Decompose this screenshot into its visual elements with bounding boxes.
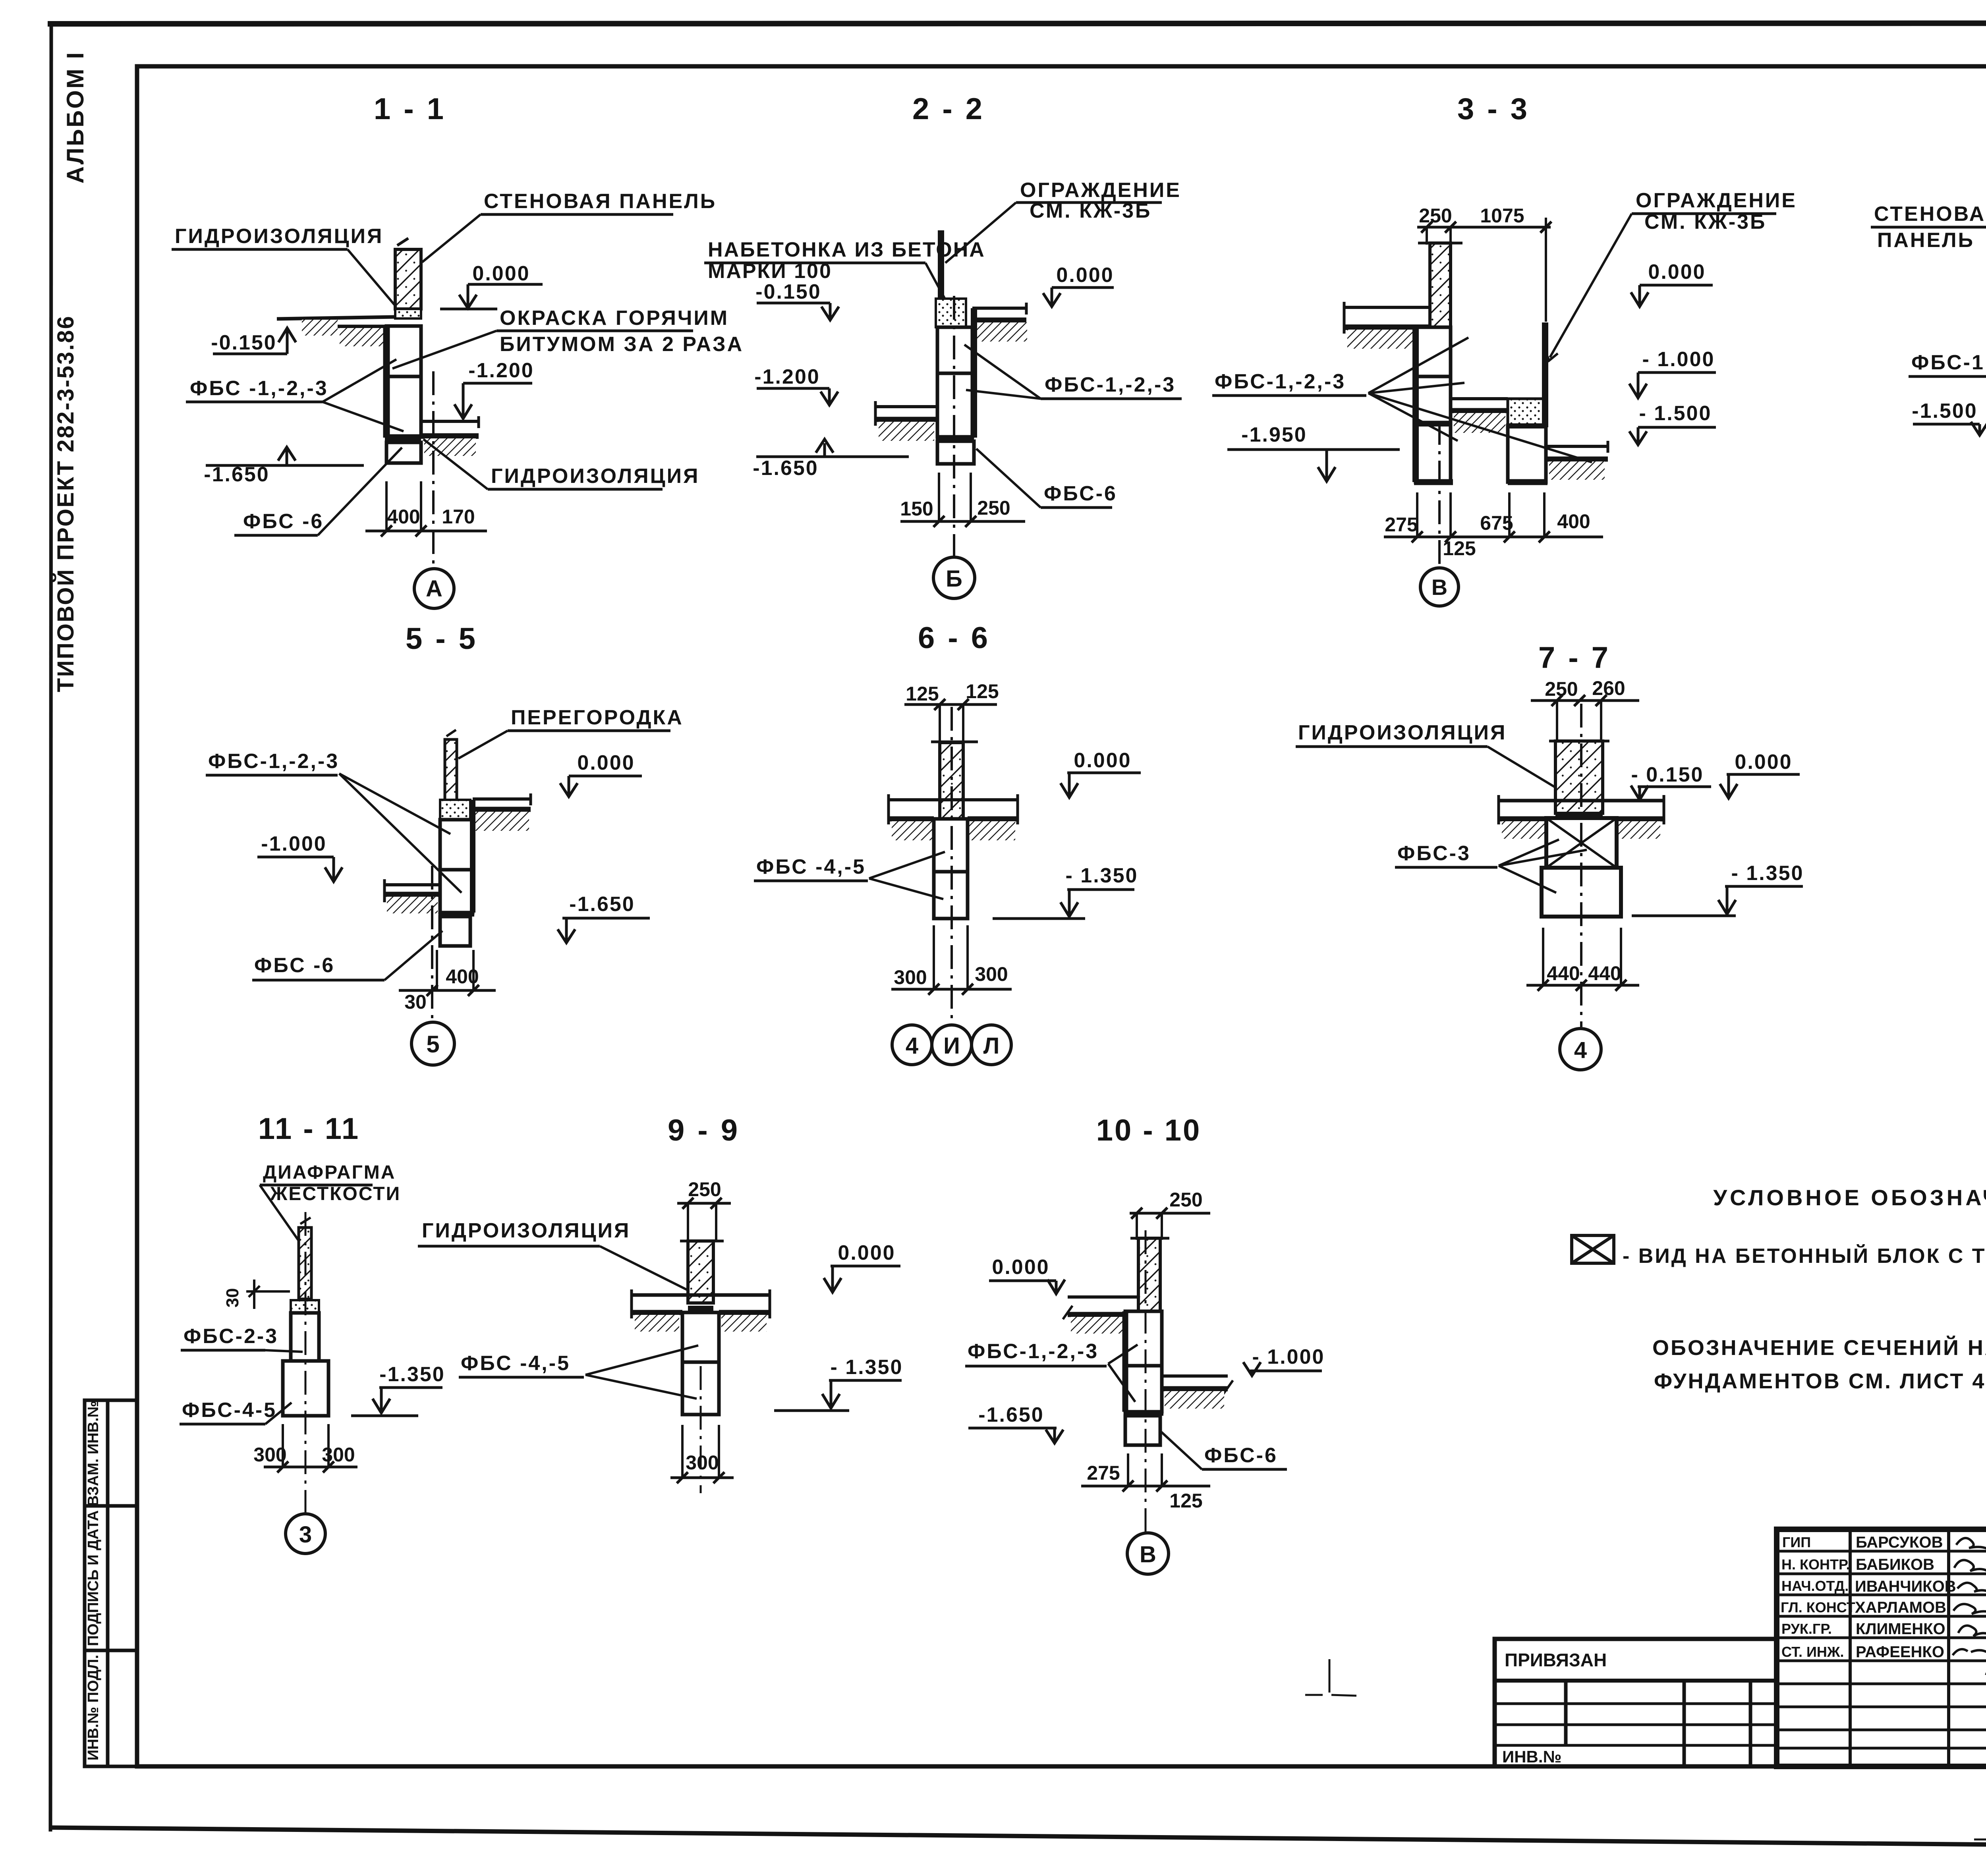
wall panel (hatched)	[1430, 243, 1451, 327]
top dimension 250	[677, 1202, 731, 1205]
floor slab left	[1068, 1295, 1138, 1299]
svg-text:400: 400	[1557, 510, 1590, 533]
axis line 3	[305, 1212, 307, 1512]
waterproofing layer under wall	[395, 309, 421, 318]
svg-text:В: В	[1140, 1542, 1156, 1567]
svg-text:150: 150	[900, 498, 933, 520]
foundation blocks	[1125, 1311, 1162, 1366]
svg-text:ФБС-1,-2,-3: ФБС-1,-2,-3	[968, 1340, 1099, 1363]
bottom dimension 275/125	[1081, 1485, 1210, 1488]
title block frame	[1777, 1529, 1986, 1766]
soil hatch right	[1165, 1391, 1224, 1409]
svg-text:ГИДРОИЗОЛЯЦИЯ: ГИДРОИЗОЛЯЦИЯ	[175, 225, 383, 248]
svg-text:В: В	[1432, 575, 1447, 600]
svg-text:5 - 5: 5 - 5	[406, 622, 478, 656]
bottom dimension 300/300	[264, 1466, 357, 1469]
svg-text:БИТУМОМ ЗА 2 РАЗА: БИТУМОМ ЗА 2 РАЗА	[500, 333, 744, 356]
svg-text:300: 300	[253, 1444, 286, 1466]
svg-text:-1.950: -1.950	[1241, 423, 1307, 446]
bitumen left edge	[1122, 1311, 1128, 1412]
svg-text:4: 4	[906, 1033, 918, 1059]
svg-text:ПАНЕЛЬ: ПАНЕЛЬ	[1877, 229, 1974, 252]
svg-text:2 - 2: 2 - 2	[912, 92, 985, 126]
bottom dimension 275/675/400/125	[1384, 536, 1603, 538]
svg-text:Б: Б	[946, 566, 962, 592]
svg-text:300: 300	[322, 1444, 355, 1466]
svg-text:ГИДРОИЗОЛЯЦИЯ: ГИДРОИЗОЛЯЦИЯ	[422, 1219, 630, 1242]
svg-text:275: 275	[1087, 1462, 1120, 1484]
top dimension 250	[1130, 1212, 1210, 1215]
floor slab right	[473, 797, 531, 801]
registration mark	[1305, 1659, 1356, 1696]
svg-text:-1.650: -1.650	[569, 893, 635, 916]
foundation blocks	[934, 819, 968, 872]
svg-text:5: 5	[426, 1031, 439, 1058]
svg-text:-1.500: -1.500	[1912, 400, 1977, 423]
bottom dimension 300/300	[891, 988, 1012, 991]
outer top border line	[48, 23, 1986, 24]
privyazan table	[1495, 1639, 1777, 1766]
ground floor line left	[277, 317, 395, 319]
floor slab right	[972, 307, 1026, 310]
axis line I	[950, 707, 953, 1024]
svg-text:ФБС-1,-2,-3: ФБС-1,-2,-3	[1911, 351, 1986, 374]
mortar cap (stippled)	[440, 800, 470, 820]
svg-text:СТЕНОВАЯ ПАНЕЛЬ: СТЕНОВАЯ ПАНЕЛЬ	[484, 190, 717, 213]
svg-text:ГИДРОИЗОЛЯЦИЯ: ГИДРОИЗОЛЯЦИЯ	[1298, 721, 1507, 744]
axis line 4	[1580, 704, 1582, 1027]
block FBS-2-3	[291, 1313, 319, 1361]
soil hatch middle	[1454, 413, 1505, 433]
svg-text:ДИАФРАГМА: ДИАФРАГМА	[263, 1162, 396, 1183]
dimension line 30/400	[399, 989, 496, 992]
soil hatch	[635, 1315, 679, 1332]
soil hatch both sides	[892, 821, 934, 840]
svg-text:ФБС -4,-5: ФБС -4,-5	[756, 855, 866, 878]
axis circle 3	[286, 1514, 325, 1554]
basement floor left	[384, 883, 440, 886]
floor slab	[1499, 799, 1664, 803]
outer bottom border line	[49, 1828, 1986, 1850]
axis circle A	[414, 569, 454, 608]
waterproofing band on footing	[936, 435, 974, 441]
bottom dimension 440/440	[1526, 984, 1639, 987]
fence pier (right): stipple top + block	[1508, 399, 1546, 426]
top dimension 250/260	[1531, 699, 1639, 702]
svg-text:ФБС-1,-2,-3: ФБС-1,-2,-3	[208, 750, 339, 773]
svg-text:125: 125	[906, 683, 939, 705]
svg-text:675: 675	[1480, 512, 1513, 534]
soil hatch left	[1071, 1317, 1124, 1334]
axis circle V	[1420, 568, 1459, 606]
soil hatch right	[475, 812, 529, 831]
svg-text:250: 250	[1169, 1189, 1202, 1211]
svg-text:10 - 10: 10 - 10	[1096, 1114, 1202, 1147]
wall panel (hatched)	[395, 249, 421, 309]
svg-text:275: 275	[1385, 513, 1418, 536]
svg-text:Л: Л	[983, 1033, 1000, 1059]
svg-text:ФБС -6: ФБС -6	[254, 954, 335, 977]
foundation blocks	[937, 327, 972, 373]
svg-text:- 1.350: - 1.350	[1731, 862, 1804, 885]
svg-text:- ВИД НА БЕТОННЫЙ БЛОК С Т: - ВИД НА БЕТОННЫЙ БЛОК С ТОРЦА.	[1623, 1244, 1986, 1268]
top dimension 250/1075	[1417, 226, 1551, 229]
bitumen coated left edge	[383, 326, 390, 438]
svg-text:0.000: 0.000	[838, 1241, 895, 1264]
svg-text:-1.200: -1.200	[754, 365, 820, 388]
svg-text:-1.650: -1.650	[978, 1403, 1044, 1426]
svg-text:ФБС-4-5: ФБС-4-5	[182, 1399, 277, 1422]
mortar cap (stippled)	[291, 1300, 319, 1313]
svg-text:0.000: 0.000	[992, 1256, 1049, 1279]
left margin stamp boxes	[85, 1400, 137, 1766]
svg-text:ОГРАЖДЕНИЕ: ОГРАЖДЕНИЕ	[1636, 189, 1797, 212]
svg-text:250: 250	[977, 497, 1010, 519]
soil hatch left	[387, 897, 438, 913]
svg-text:- 1.000: - 1.000	[1252, 1345, 1325, 1368]
svg-text:ГЛ. КОНСТ: ГЛ. КОНСТ	[1781, 1599, 1855, 1615]
block with X (end view)	[1546, 818, 1617, 868]
svg-text:-0.150: -0.150	[755, 280, 821, 303]
svg-text:440: 440	[1547, 962, 1580, 984]
axis circle 4	[1560, 1029, 1601, 1070]
svg-text:1075: 1075	[1480, 205, 1524, 227]
diaphragm strip (hatched)	[299, 1228, 311, 1299]
svg-text:0.000: 0.000	[1735, 751, 1792, 774]
foundation blocks FBS-1,-2,-3	[386, 326, 421, 376]
svg-text:ТИПОВОЙ ПРОЕКТ 282-3-53.86: ТИПОВОЙ ПРОЕКТ 282-3-53.86	[53, 315, 79, 692]
svg-text:БАРСУКОВ: БАРСУКОВ	[1856, 1534, 1943, 1551]
svg-text:1 - 1: 1 - 1	[374, 92, 446, 126]
svg-text:0.000: 0.000	[577, 751, 635, 774]
svg-text:ФБС-6: ФБС-6	[1204, 1444, 1278, 1467]
soil hatch lower right	[1549, 461, 1605, 480]
foundation blocks axis V	[1416, 327, 1451, 376]
outer left border line	[50, 21, 51, 1832]
svg-text:СТЕНОВАЯ: СТЕНОВАЯ	[1874, 203, 1986, 226]
concrete topping block (stippled)	[936, 299, 966, 327]
svg-text:440: 440	[1588, 962, 1621, 984]
svg-text:- 1.500: - 1.500	[1639, 402, 1712, 425]
svg-text:ЖЕСТКОСТИ: ЖЕСТКОСТИ	[270, 1183, 401, 1204]
soil hatch	[1502, 821, 1546, 839]
svg-text:0.000: 0.000	[1648, 261, 1706, 284]
soil hatch left	[1347, 330, 1419, 349]
axis line B	[953, 296, 955, 556]
svg-text:- 1.000: - 1.000	[1642, 348, 1715, 371]
svg-text:АЛЬБОМ I: АЛЬБОМ I	[62, 51, 89, 183]
svg-text:Н. КОНТР.: Н. КОНТР.	[1781, 1556, 1850, 1573]
axis circle 5	[411, 1022, 454, 1065]
svg-text:ИНВ.№: ИНВ.№	[1502, 1747, 1561, 1766]
svg-text:300: 300	[975, 963, 1008, 985]
wall (hatched)	[940, 743, 963, 819]
svg-text:30: 30	[223, 1288, 242, 1308]
svg-text:260: 260	[1592, 677, 1625, 699]
footing block FBS-6	[1125, 1416, 1160, 1445]
basement floor left	[875, 405, 937, 408]
basement floor right	[1162, 1374, 1228, 1378]
svg-text:125: 125	[1443, 537, 1476, 560]
floor slab left	[1344, 306, 1430, 309]
svg-text:400: 400	[387, 506, 420, 528]
bottom dimension 300	[670, 1476, 734, 1479]
dimension line 400/170	[365, 530, 487, 533]
svg-text:ОГРАЖДЕНИЕ: ОГРАЖДЕНИЕ	[1020, 179, 1181, 202]
svg-text:-0.150: -0.150	[211, 331, 276, 354]
footing block FBS-6	[937, 441, 974, 464]
svg-text:0.000: 0.000	[1074, 749, 1131, 772]
block FBS-4-5	[283, 1361, 328, 1416]
svg-text:ГИП: ГИП	[1782, 1534, 1811, 1550]
soil hatch under basement floor	[424, 438, 476, 456]
waterproofing dark band under wall	[688, 1306, 713, 1312]
svg-text:6 - 6: 6 - 6	[918, 621, 990, 655]
svg-text:ФБС -4,-5: ФБС -4,-5	[461, 1352, 570, 1375]
svg-text:3: 3	[299, 1522, 312, 1548]
personnel column dividers	[1849, 1529, 1852, 1766]
svg-text:-1.000: -1.000	[261, 832, 326, 855]
svg-text:125: 125	[1169, 1490, 1202, 1512]
footing block FBS-6	[440, 917, 470, 946]
svg-text:ФБС-3: ФБС-3	[1397, 842, 1471, 865]
axis line A	[432, 371, 435, 568]
basement floor right	[421, 420, 479, 423]
signatures (handwritten squiggles)	[1953, 1538, 1986, 1675]
svg-text:А: А	[426, 576, 442, 602]
floor slab	[632, 1293, 770, 1297]
legend block-end symbol	[1572, 1235, 1614, 1263]
axis line V	[1145, 1230, 1147, 1532]
fence post	[1542, 322, 1548, 427]
waterproofing dark band under wall	[1555, 812, 1603, 818]
svg-text:СТ. ИНЖ.: СТ. ИНЖ.	[1781, 1644, 1844, 1660]
svg-text:-1.350: -1.350	[379, 1363, 445, 1386]
svg-text:ИНВ.№ ПОДЛ.: ИНВ.№ ПОДЛ.	[85, 1655, 102, 1760]
svg-text:300: 300	[686, 1451, 719, 1474]
svg-text:400: 400	[446, 965, 479, 988]
svg-text:ОКРАСКА ГОРЯЧИМ: ОКРАСКА ГОРЯЧИМ	[500, 307, 729, 330]
axis circle B	[933, 557, 975, 598]
svg-text:НАЧ.ОТД.: НАЧ.ОТД.	[1781, 1578, 1849, 1594]
wall (hatched)	[1138, 1238, 1160, 1311]
basement floor right	[1546, 445, 1608, 448]
svg-text:0.000: 0.000	[472, 262, 530, 285]
axis line V	[1438, 421, 1441, 566]
svg-text:7 - 7: 7 - 7	[1538, 641, 1611, 675]
waterproofing band on footing	[1124, 1410, 1163, 1416]
personnel labels	[1781, 1534, 1855, 1660]
svg-text:ФБС -6: ФБС -6	[243, 510, 324, 533]
svg-text:РУК.ГР.: РУК.ГР.	[1781, 1621, 1832, 1637]
svg-text:250: 250	[1419, 205, 1452, 227]
floor slab both sides	[889, 798, 1018, 801]
svg-text:УСЛОВНОЕ ОБОЗНАЧЕНИЕ:: УСЛОВНОЕ ОБОЗНАЧЕНИЕ:	[1713, 1185, 1986, 1210]
personnel row lines	[1777, 1550, 1986, 1553]
axis line 9-9	[700, 1366, 702, 1493]
svg-text:ФБС-2-3: ФБС-2-3	[184, 1325, 278, 1348]
middle floor	[1451, 397, 1508, 400]
svg-text:ИВАНЧИКОВ: ИВАНЧИКОВ	[1855, 1578, 1956, 1595]
top dimension 125/125	[904, 703, 997, 706]
foundation blocks	[682, 1312, 719, 1362]
svg-text:ПРИВЯЗАН: ПРИВЯЗАН	[1505, 1650, 1607, 1670]
bottom block	[1542, 868, 1621, 917]
svg-text:ПЕРЕГОРОДКА: ПЕРЕГОРОДКА	[511, 706, 684, 729]
svg-text:3 - 3: 3 - 3	[1457, 92, 1530, 126]
svg-text:9 - 9: 9 - 9	[668, 1114, 740, 1147]
svg-text:170: 170	[442, 506, 475, 528]
svg-text:11 - 11: 11 - 11	[258, 1112, 360, 1146]
svg-text:0.000: 0.000	[1056, 264, 1114, 287]
soil hatch right	[977, 322, 1027, 342]
footing block FBS-6	[386, 442, 421, 463]
dimension line 150/250	[900, 520, 1025, 523]
svg-text:ФУНДАМЕНТОВ СМ. ЛИСТ 4: ФУНДАМЕНТОВ СМ. ЛИСТ 4	[1654, 1369, 1986, 1393]
axis circles 4, I, L	[892, 1025, 932, 1065]
svg-text:ФБС-1,-2,-3: ФБС-1,-2,-3	[1045, 373, 1176, 396]
svg-text:ГИДРОИЗОЛЯЦИЯ: ГИДРОИЗОЛЯЦИЯ	[491, 465, 699, 488]
axis circle V	[1127, 1533, 1169, 1574]
fence post	[938, 230, 944, 307]
waterproofing band on footing	[385, 436, 421, 442]
svg-text:250: 250	[688, 1178, 721, 1200]
svg-text:РАФЕЕНКО: РАФЕЕНКО	[1856, 1643, 1944, 1661]
svg-text:БАБИКОВ: БАБИКОВ	[1856, 1556, 1934, 1573]
svg-text:4: 4	[1574, 1037, 1587, 1063]
foundation blocks	[440, 820, 473, 870]
svg-text:ПОДПИСЬ И ДАТА: ПОДПИСЬ И ДАТА	[85, 1510, 102, 1646]
svg-text:125: 125	[966, 680, 999, 703]
bitumen right edge	[971, 308, 977, 438]
svg-text:КЛИМЕНКО: КЛИМЕНКО	[1856, 1620, 1945, 1638]
svg-text:30: 30	[404, 991, 427, 1013]
svg-text:-1.200: -1.200	[468, 359, 534, 382]
svg-text:ФБС -1,-2,-3: ФБС -1,-2,-3	[190, 377, 328, 400]
svg-text:- 1.350: - 1.350	[831, 1356, 903, 1379]
wall (hatched)	[688, 1241, 713, 1303]
svg-text:ВЗАМ. ИНВ.№: ВЗАМ. ИНВ.№	[85, 1401, 102, 1506]
soil hatch left	[302, 320, 338, 336]
svg-text:ОБОЗНАЧЕНИЕ СЕЧЕНИЙ НА СХЕМ: ОБОЗНАЧЕНИЕ СЕЧЕНИЙ НА СХЕМЕ РАСПОЛОЖЕНИ…	[1652, 1336, 1986, 1360]
svg-text:300: 300	[894, 966, 927, 988]
wall (hatched)	[1555, 741, 1603, 813]
partition strip (hatched)	[445, 739, 457, 810]
axis line 5	[431, 866, 433, 1021]
svg-text:-1.650: -1.650	[753, 457, 818, 480]
svg-text:НАБЕТОНКА ИЗ БЕТОНА: НАБЕТОНКА ИЗ БЕТОНА	[708, 238, 985, 261]
svg-text:ФБС-6: ФБС-6	[1044, 482, 1117, 505]
svg-text:- 0.150: - 0.150	[1631, 763, 1704, 786]
svg-text:И: И	[943, 1033, 960, 1059]
soil hatch left	[879, 422, 934, 441]
svg-text:ФБС-1,-2,-3: ФБС-1,-2,-3	[1215, 370, 1346, 393]
svg-text:- 1.350: - 1.350	[1066, 864, 1138, 887]
svg-text:ХАРЛАМОВ: ХАРЛАМОВ	[1855, 1599, 1946, 1616]
svg-text:250: 250	[1545, 678, 1578, 700]
